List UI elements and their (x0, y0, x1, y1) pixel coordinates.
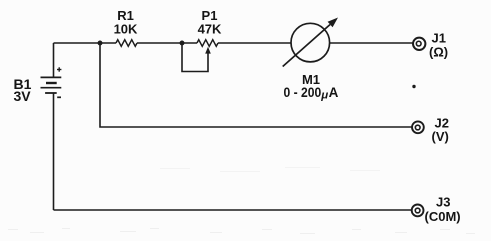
potentiometer P1 wiper arrowhead (205, 47, 211, 54)
scan noise speckles (8, 167, 475, 234)
potentiometer P1 zigzag (197, 40, 218, 47)
svg-text:0 - 200: 0 - 200 (284, 84, 322, 100)
svg-text:J3: J3 (436, 195, 450, 210)
svg-text:47K: 47K (198, 22, 222, 37)
wire left vertical above battery (53, 43, 55, 77)
meter M1 needle arrow (283, 25, 330, 67)
wire node A down to J2 rail (100, 43, 412, 127)
node P1 left junction dot (180, 41, 185, 46)
wire meter M1 to J1 (330, 42, 413, 44)
svg-text:(V): (V) (432, 129, 449, 144)
wire P1 to meter M1 (218, 42, 292, 44)
jack J2 (412, 121, 424, 133)
wire R1 to P1 (137, 42, 197, 44)
battery minus sign (57, 96, 61, 98)
svg-text:J1: J1 (432, 31, 446, 46)
svg-text:3V: 3V (14, 88, 32, 104)
svg-text:A: A (329, 85, 339, 100)
battery plus sign (57, 67, 61, 71)
wire P1 wiper loop (182, 43, 208, 72)
wire bottom rail to J3 (54, 209, 412, 211)
svg-text:(Ω): (Ω) (429, 45, 448, 60)
svg-text:(C0M): (C0M) (425, 209, 461, 224)
svg-text:10K: 10K (114, 22, 138, 37)
jack J1 (413, 38, 425, 50)
resistor R1 zigzag (116, 40, 137, 47)
jack J3 (412, 205, 424, 217)
wire left vertical below battery to bottom rail (53, 93, 55, 210)
node A junction dot (98, 41, 103, 46)
battery B1 (41, 77, 62, 93)
meter M1 circle (291, 23, 330, 62)
svg-text:μ: μ (320, 90, 328, 102)
scan speck dot (412, 85, 415, 88)
wire top-left: battery top to node A (54, 42, 117, 44)
